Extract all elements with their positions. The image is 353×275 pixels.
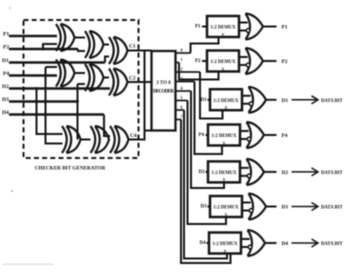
demux U7 box 1:2 DEMUX	[209, 233, 241, 254]
or gate row 5	[247, 159, 265, 185]
wire gate output row 2	[263, 60, 277, 62]
wire demux outputs row 5	[240, 168, 249, 176]
svg-text:DATA BIT: DATA BIT	[321, 206, 343, 211]
wire from out7 bottom run	[181, 120, 231, 264]
select wire row7 from out6	[184, 110, 227, 259]
wire D2	[9, 87, 110, 90]
select wire row6 from out5	[188, 101, 227, 225]
wire A lower input from P2	[43, 44, 57, 49]
svg-text:6: 6	[181, 105, 183, 110]
arrow to data bit row 6	[292, 206, 317, 208]
svg-text:D3: D3	[2, 97, 9, 103]
bubble on lower input row 5	[247, 174, 251, 178]
svg-text:P2: P2	[3, 45, 9, 51]
svg-text:0: 0	[181, 48, 183, 53]
wire gate output row 3	[266, 99, 277, 101]
wire demux outputs row 1	[239, 23, 248, 31]
junction on D2	[35, 87, 38, 90]
wire gate output row 1	[263, 26, 277, 28]
svg-text:7: 7	[181, 114, 183, 119]
svg-text:DECODER: DECODER	[153, 90, 174, 95]
junction on P2	[42, 48, 45, 51]
wire input row 6	[208, 206, 211, 208]
decoder output stubs	[176, 53, 201, 120]
wire demux outputs row 4	[240, 131, 249, 139]
svg-text:D1: D1	[2, 58, 9, 64]
svg-text:P1: P1	[195, 25, 201, 30]
svg-text:1:2 DEMUX: 1:2 DEMUX	[212, 242, 238, 247]
svg-text:C1: C1	[129, 44, 136, 50]
or gate row 3	[249, 87, 267, 113]
wire A to B	[75, 37, 86, 39]
wire gate output row 5	[264, 171, 277, 173]
svg-text:P2: P2	[195, 59, 201, 64]
svg-text:5: 5	[181, 95, 183, 100]
junction on D3 at H branch	[76, 100, 79, 103]
wire input row 3	[208, 99, 211, 101]
wire demux outputs row 7	[241, 239, 250, 247]
wire C lower input from D1	[105, 57, 109, 63]
demux U6 box 1:2 DEMUX	[210, 196, 242, 217]
or gate row 1	[246, 14, 264, 40]
wire D4	[9, 113, 104, 116]
decoder output digits 0-7	[181, 48, 183, 120]
wire gate output row 7	[265, 242, 277, 244]
wire demux outputs row 3	[242, 96, 251, 104]
svg-text:2: 2	[181, 67, 183, 72]
svg-text:DATA BIT: DATA BIT	[321, 171, 343, 176]
wire C1 to decoder	[128, 50, 152, 52]
wire I upper input from D4 end	[104, 115, 110, 137]
svg-text:P4: P4	[282, 133, 288, 139]
demux U5 box 1:2 DEMUX	[208, 161, 240, 182]
svg-text:P1: P1	[3, 32, 9, 38]
select wire row4 from out3	[195, 82, 223, 155]
dashed box CHECKER BIT GENERATOR	[24, 20, 139, 158]
select wire row3 from out2	[200, 72, 223, 119]
select wire row5 from out4	[191, 91, 224, 188]
wire C4 to decoder bottom	[129, 51, 152, 140]
select wire row1 from out0	[191, 37, 219, 53]
wire input row 1	[202, 26, 207, 28]
svg-text:P4: P4	[3, 71, 9, 77]
svg-text:P2: P2	[282, 59, 288, 65]
wire gate output row 4	[264, 134, 277, 136]
arrow to data bit row 7	[292, 242, 317, 244]
svg-text:1:2 DEMUX: 1:2 DEMUX	[213, 206, 239, 211]
svg-text:DATA BIT: DATA BIT	[321, 99, 343, 104]
bubble on lower input row 3	[249, 102, 253, 106]
svg-text:3 TO 8: 3 TO 8	[156, 81, 171, 86]
decoder box 3 TO 8 DECODER	[152, 51, 176, 131]
select wire row2 from out1	[179, 63, 219, 80]
svg-text:DATA BIT: DATA BIT	[321, 242, 343, 247]
demux U3 box 1:2 DEMUX	[210, 89, 242, 110]
wire B to C	[104, 44, 110, 46]
wire D1	[9, 61, 105, 64]
wire G to H	[81, 139, 91, 141]
wire demux outputs row 6	[242, 203, 251, 211]
svg-text:D4: D4	[282, 241, 289, 247]
xor gate F	[109, 69, 128, 96]
or gate row 4	[247, 122, 265, 148]
wire C2 to decoder	[128, 81, 152, 83]
svg-text:1:2 DEMUX: 1:2 DEMUX	[213, 99, 239, 104]
wire P4	[9, 74, 57, 77]
wire G lower input branch	[46, 67, 63, 144]
arrow to data bit row 3	[292, 99, 317, 101]
svg-text:CHECKER BIT GENERATOR: CHECKER BIT GENERATOR	[35, 166, 106, 172]
svg-text:D2: D2	[199, 170, 206, 175]
wire gate output row 6	[266, 206, 277, 208]
svg-text:1:2 DEMUX: 1:2 DEMUX	[211, 134, 237, 139]
bubble on lower input row 4	[247, 137, 251, 141]
wire B lower input from P2	[78, 49, 85, 51]
wire demux outputs row 2	[239, 57, 248, 65]
svg-text:D3: D3	[282, 205, 289, 211]
wire P1	[9, 35, 57, 38]
xor gate E	[85, 64, 104, 91]
svg-text:1:2 DEMUX: 1:2 DEMUX	[211, 171, 237, 176]
svg-text:D1: D1	[282, 98, 289, 104]
arrow to data bit row 5	[292, 171, 317, 173]
speck bottom left	[11, 190, 13, 192]
wire input row 5	[206, 171, 209, 173]
wire D3	[9, 100, 78, 103]
svg-text:C4: C4	[130, 133, 137, 139]
junction on D4	[44, 113, 47, 116]
speck top left	[9, 7, 11, 9]
demux U1 box 1:2 DEMUX	[207, 16, 239, 37]
svg-text:D1: D1	[201, 98, 208, 103]
xor gate C	[109, 37, 128, 64]
speck bottom strip	[2, 264, 54, 266]
or gate row 2	[246, 48, 264, 74]
wire input row 2	[202, 60, 207, 62]
svg-text:P4: P4	[199, 133, 205, 138]
wire P2	[9, 48, 78, 51]
svg-text:1:2 DEMUX: 1:2 DEMUX	[210, 26, 236, 31]
svg-text:4: 4	[181, 86, 183, 91]
wire E lower input	[78, 83, 86, 85]
svg-text:P1: P1	[282, 25, 288, 31]
wire input row 7	[207, 242, 210, 244]
xor gate H	[91, 126, 110, 153]
xor gate A	[56, 24, 75, 51]
svg-text:D3: D3	[201, 205, 208, 210]
wire input row 4	[206, 134, 209, 136]
bubble on lower input row 2	[246, 63, 250, 67]
xor gate I	[110, 126, 129, 153]
wire E to F	[104, 77, 110, 79]
or gate row 7	[248, 230, 266, 256]
xor gate D	[56, 60, 75, 87]
svg-text:C2: C2	[129, 76, 136, 82]
svg-text:1: 1	[181, 57, 183, 62]
wire H upper input from E branch	[77, 84, 79, 140]
svg-text:D2: D2	[2, 84, 9, 90]
bubble on lower input row 1	[246, 29, 250, 33]
or gate row 6	[249, 194, 267, 220]
demux U4 box 1:2 DEMUX	[208, 125, 240, 146]
svg-text:1:2 DEMUX: 1:2 DEMUX	[210, 60, 236, 65]
svg-text:D4: D4	[2, 110, 9, 116]
wire D upper input	[46, 66, 58, 68]
demux U2 box 1:2 DEMUX	[207, 51, 239, 72]
xor gate B	[85, 31, 104, 58]
bubble on lower input row 7	[248, 245, 252, 249]
svg-text:D4: D4	[200, 241, 207, 246]
bubble on lower input row 6	[249, 209, 253, 213]
xor gate G	[62, 126, 81, 153]
wire D to E	[75, 72, 86, 74]
svg-text:D2: D2	[282, 170, 289, 176]
wire H to I	[109, 139, 110, 141]
wire G upper input from D2	[37, 89, 63, 135]
